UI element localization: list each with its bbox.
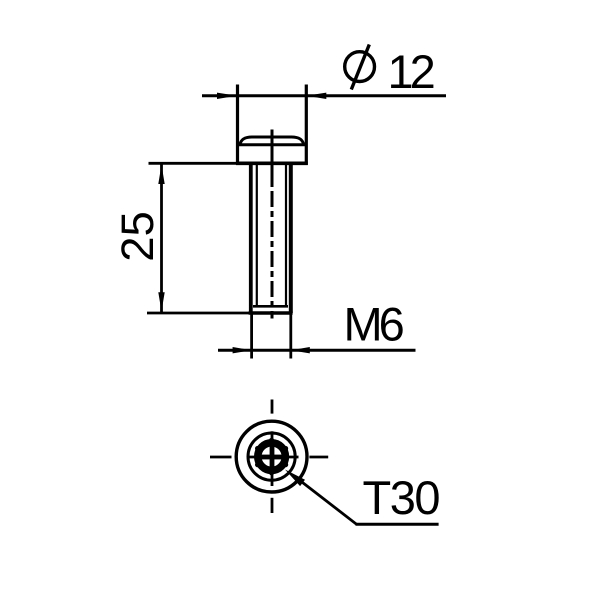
thread minor diameter right line bbox=[285, 164, 287, 307]
torx lobe bump upper left bbox=[255, 446, 260, 451]
tip bottom line bbox=[249, 311, 293, 315]
torx lobe bump lower right bbox=[283, 462, 288, 467]
torx lobe bump top bbox=[269, 438, 274, 443]
torx lobe bump lower left bbox=[255, 462, 260, 467]
centerline horizontal right dash bbox=[309, 456, 328, 459]
centerline horizontal through circle bbox=[247, 456, 299, 459]
screw head bottom line bbox=[236, 162, 308, 166]
leader underline below T30 bbox=[356, 523, 439, 526]
arrowhead right of Ø12 dimension bbox=[306, 93, 326, 99]
thread minor diameter left line bbox=[256, 164, 258, 307]
svg-text:M6: M6 bbox=[344, 298, 404, 351]
shaft major diameter right edge bbox=[289, 163, 293, 313]
shaft major diameter left edge bbox=[249, 163, 253, 313]
extension line left of M6 dimension bbox=[250, 313, 253, 359]
centerline horizontal left dash bbox=[210, 456, 232, 459]
torx cross horizontal bar bbox=[258, 455, 286, 460]
torx cross vertical bar bbox=[270, 443, 275, 471]
torx lobe bump bottom bbox=[269, 470, 274, 475]
arrowhead right of M6 dimension bbox=[291, 347, 310, 353]
arrowhead left of Ø12 dimension bbox=[217, 93, 237, 99]
centerline vertical bottom dash bbox=[271, 498, 274, 513]
torx lobe bump upper right bbox=[283, 446, 288, 451]
arrowhead bottom of 25 dimension bbox=[158, 292, 164, 311]
svg-text:25: 25 bbox=[112, 211, 163, 262]
dimension line M6 bbox=[218, 349, 416, 352]
screw axis centerline solid upper part bbox=[271, 130, 274, 182]
extension line right head side (head outline) bbox=[305, 85, 308, 165]
bottom view inner circle (head chamfer) bbox=[248, 433, 295, 480]
extension line left head side (head outline) bbox=[236, 85, 239, 165]
dimension line Ø12 bbox=[202, 94, 446, 97]
label Ø12 diameter symbol circle bbox=[345, 52, 375, 82]
centerline vertical top dash bbox=[271, 400, 274, 414]
dimension line 25 vertical bbox=[160, 163, 163, 313]
label Ø12 diameter symbol slash bbox=[351, 45, 369, 90]
svg-text:12: 12 bbox=[388, 45, 434, 98]
centerline vertical through circle bbox=[271, 431, 274, 486]
bottom view outer circle (head Ø12) bbox=[236, 421, 307, 492]
screw axis centerline dashed lower part bbox=[271, 181, 274, 319]
arrowhead left of M6 dimension bbox=[233, 347, 252, 353]
torx recess T30 annulus bbox=[258, 443, 286, 471]
svg-text:T30: T30 bbox=[363, 471, 440, 524]
arrowhead top of 25 dimension bbox=[158, 165, 164, 184]
leader line from torx to T30 label bbox=[298, 479, 357, 524]
extension line right of M6 dimension bbox=[289, 313, 292, 359]
extension line bottom of 25 dimension bbox=[147, 312, 249, 315]
extension line top of 25 dimension bbox=[149, 162, 238, 165]
screw head dome arc bbox=[240, 137, 304, 145]
leader arrowhead pointing at torx bbox=[285, 470, 305, 487]
screw head dome base line bbox=[238, 143, 306, 146]
tip chamfer line bbox=[253, 305, 288, 308]
